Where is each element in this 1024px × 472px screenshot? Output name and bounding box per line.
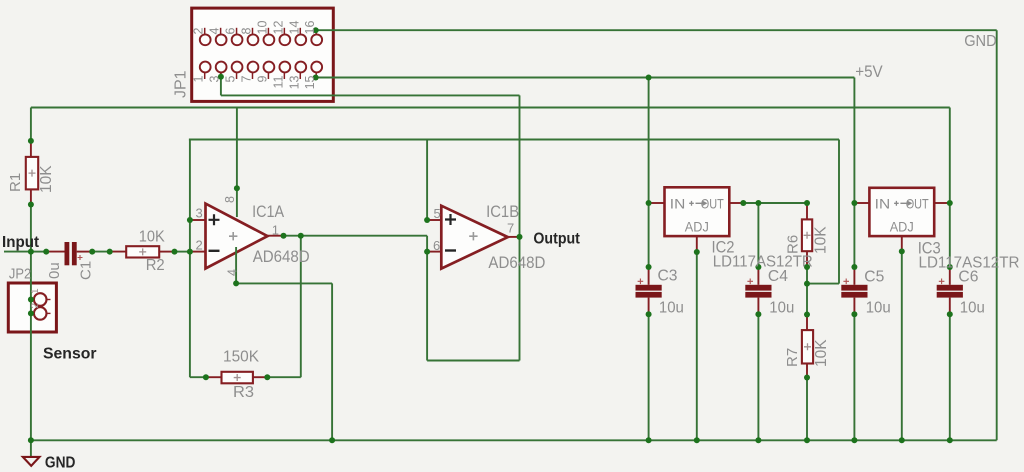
svg-text:10K: 10K: [813, 339, 830, 367]
svg-text:13: 13: [287, 75, 301, 89]
svg-text:R2: R2: [146, 257, 165, 274]
svg-text:ADJ: ADJ: [890, 219, 914, 235]
svg-text:6: 6: [433, 238, 440, 253]
svg-text:8: 8: [240, 28, 254, 35]
svg-text:1: 1: [192, 75, 206, 82]
svg-text:8: 8: [223, 196, 237, 203]
svg-text:Sensor: Sensor: [43, 346, 97, 363]
svg-text:OUT: OUT: [701, 196, 724, 212]
svg-text:GND: GND: [964, 33, 997, 50]
svg-text:R3: R3: [233, 384, 254, 401]
svg-text:3: 3: [208, 75, 222, 82]
svg-text:1: 1: [272, 223, 279, 238]
svg-text:7: 7: [507, 221, 514, 236]
svg-text:5: 5: [224, 75, 238, 82]
svg-text:ADJ: ADJ: [685, 219, 709, 235]
svg-text:2: 2: [30, 303, 41, 309]
svg-text:3: 3: [196, 206, 203, 221]
svg-text:6: 6: [224, 28, 238, 35]
svg-text:AD648D: AD648D: [488, 254, 545, 272]
svg-text:16: 16: [303, 21, 317, 35]
svg-text:10u: 10u: [866, 300, 891, 317]
svg-text:JP1: JP1: [173, 70, 190, 98]
svg-text:2: 2: [196, 238, 203, 253]
svg-text:1: 1: [30, 288, 41, 294]
svg-text:C1: C1: [78, 261, 95, 280]
svg-text:10u: 10u: [769, 300, 794, 317]
svg-text:11: 11: [271, 75, 285, 88]
svg-text:C3: C3: [658, 268, 678, 285]
svg-text:2: 2: [192, 28, 206, 35]
svg-text:GND: GND: [45, 454, 76, 471]
svg-text:C4: C4: [768, 268, 788, 285]
svg-text:4: 4: [226, 269, 240, 276]
svg-text:10u: 10u: [960, 300, 985, 317]
svg-text:7: 7: [240, 75, 254, 82]
svg-text:Input: Input: [2, 234, 40, 251]
svg-text:12: 12: [271, 21, 285, 35]
svg-text:IC1A: IC1A: [252, 203, 284, 221]
svg-text:IC1B: IC1B: [486, 203, 519, 221]
svg-text:0u: 0u: [46, 262, 63, 279]
svg-text:10u: 10u: [659, 299, 684, 316]
svg-text:R6: R6: [785, 235, 802, 254]
svg-text:150K: 150K: [223, 349, 259, 366]
svg-text:4: 4: [208, 28, 222, 35]
svg-text:C5: C5: [864, 268, 884, 285]
svg-text:Output: Output: [533, 231, 580, 248]
svg-text:10K: 10K: [38, 165, 55, 193]
svg-text:AD648D: AD648D: [253, 248, 310, 266]
svg-text:OUT: OUT: [906, 196, 929, 212]
svg-text:5: 5: [434, 206, 441, 221]
svg-text:+5V: +5V: [855, 62, 883, 81]
svg-text:15: 15: [303, 75, 317, 89]
svg-text:JP2: JP2: [9, 266, 31, 283]
svg-text:14: 14: [287, 21, 301, 35]
svg-text:R7: R7: [784, 348, 801, 367]
svg-text:IN: IN: [670, 196, 686, 212]
svg-text:R1: R1: [7, 173, 24, 192]
svg-text:IN: IN: [875, 196, 891, 212]
svg-text:LD117AS12TR: LD117AS12TR: [713, 254, 813, 271]
svg-text:C6: C6: [958, 268, 978, 285]
svg-text:10: 10: [255, 21, 269, 35]
svg-text:10K: 10K: [813, 226, 830, 254]
svg-text:9: 9: [255, 75, 269, 82]
svg-text:10K: 10K: [139, 229, 165, 246]
